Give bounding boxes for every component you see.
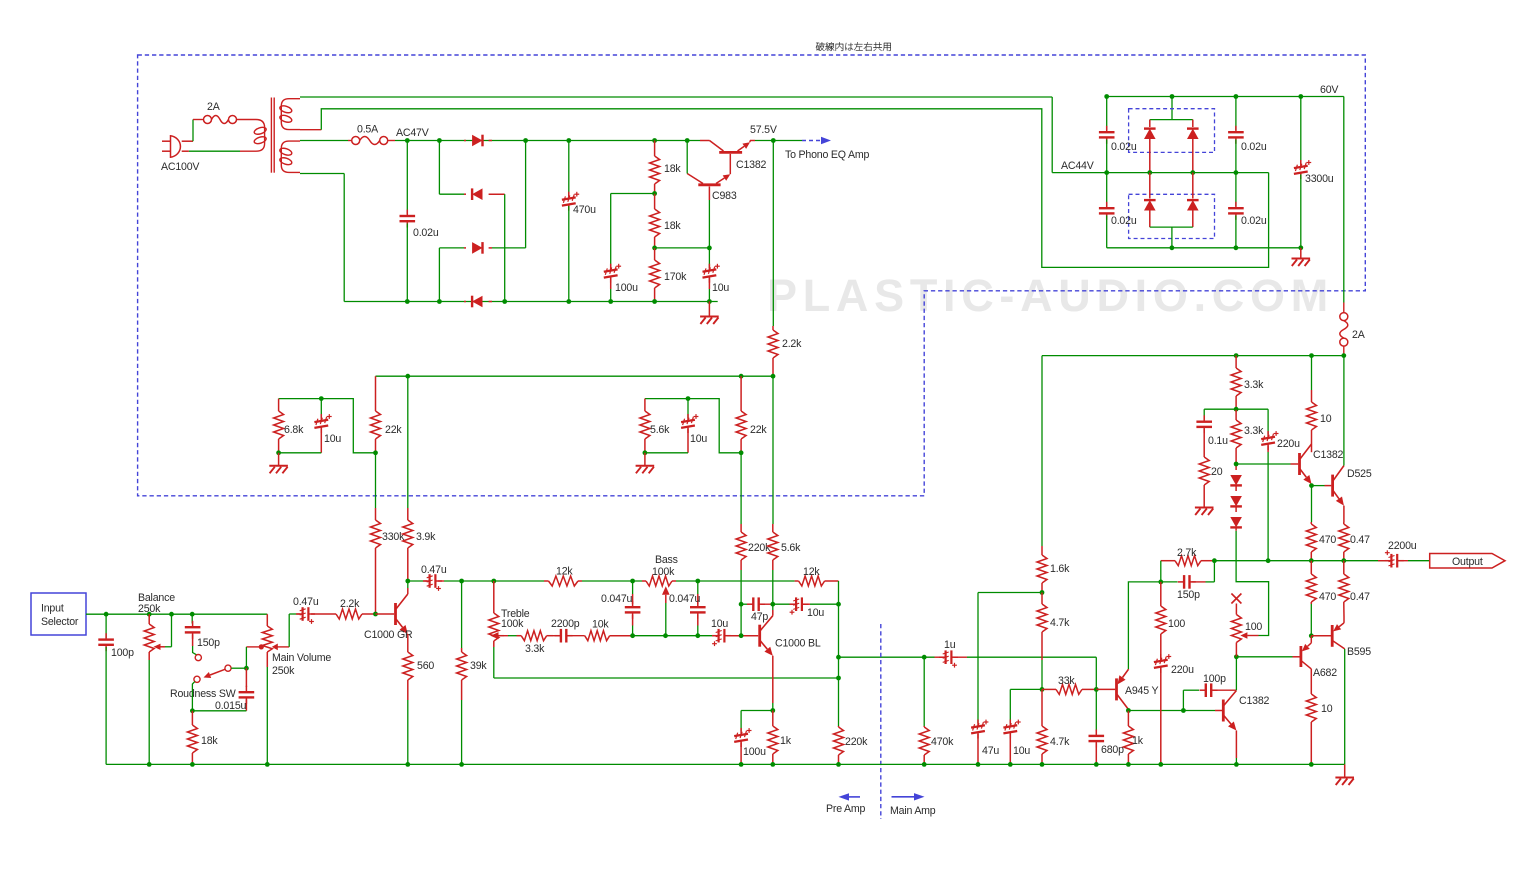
svg-text:Bass: Bass bbox=[655, 554, 678, 566]
wire tone rail bbox=[444, 580, 544, 582]
svg-text:470k: 470k bbox=[931, 736, 954, 748]
wire C983 base row bbox=[655, 247, 710, 249]
svg-text:6.8k: 6.8k bbox=[284, 424, 304, 436]
capacitor 10u cell1 bbox=[319, 396, 324, 401]
driver emitter to gnd bbox=[1235, 731, 1237, 759]
svg-text:2.7k: 2.7k bbox=[1177, 547, 1197, 559]
svg-text:A945 Y: A945 Y bbox=[1125, 685, 1158, 697]
capacitor 0.047u right bbox=[697, 581, 699, 594]
capacitor 100u bbox=[604, 269, 618, 271]
D525 collector to rail bbox=[1343, 356, 1345, 466]
resistor 12k tone-right bbox=[799, 576, 825, 586]
wire driver base line bbox=[1128, 710, 1215, 712]
transistor A682 bbox=[1300, 646, 1303, 667]
treble wiper bbox=[499, 635, 505, 637]
svg-text:18k: 18k bbox=[664, 220, 681, 232]
svg-text:B595: B595 bbox=[1347, 646, 1371, 658]
svg-text:2A: 2A bbox=[1352, 329, 1366, 341]
svg-text:Input: Input bbox=[41, 603, 64, 615]
svg-text:4.7k: 4.7k bbox=[1050, 617, 1070, 629]
resistor 22k left bbox=[375, 376, 377, 411]
wire rect row3 bbox=[438, 248, 440, 302]
wire 60V rail bbox=[1107, 96, 1344, 98]
resistor 4.7k lower bbox=[1041, 689, 1043, 726]
capacitor 2200u output bbox=[1378, 560, 1391, 562]
diode chain D5 D6 D7 bbox=[1235, 464, 1237, 470]
B595 collector to ground rail bbox=[1344, 649, 1346, 765]
wire rect row2 left leg bbox=[438, 141, 440, 195]
svg-text:0.47u: 0.47u bbox=[293, 596, 319, 608]
node rectifier top-left bbox=[437, 138, 442, 143]
node AC47V bbox=[405, 138, 410, 143]
wire fb column bbox=[838, 581, 840, 657]
svg-text:39k: 39k bbox=[470, 660, 487, 672]
svg-text:250k: 250k bbox=[138, 603, 161, 615]
balance wiper bbox=[161, 646, 166, 648]
bass wiper bbox=[665, 595, 667, 600]
svg-text:250k: 250k bbox=[272, 665, 295, 677]
wire rect row2 right leg down bbox=[504, 194, 506, 301]
svg-text:D525: D525 bbox=[1347, 468, 1372, 480]
switch contact A bbox=[195, 655, 201, 661]
diode D3 bbox=[464, 247, 466, 249]
label hasen-nai bbox=[816, 42, 825, 51]
wire emitter bypass branch bbox=[741, 710, 773, 712]
capacitor 3300u bbox=[1298, 94, 1303, 99]
diode D1 on AC47V rail bbox=[464, 140, 466, 142]
D525 emitter / resistor 0.47 upper bbox=[1343, 506, 1345, 522]
svg-text:0.02u: 0.02u bbox=[1111, 215, 1137, 227]
node 22k left bottom bbox=[373, 450, 378, 455]
wire 57.5V node bbox=[755, 140, 802, 142]
svg-text:150p: 150p bbox=[1177, 589, 1200, 601]
transistor A945 Y bbox=[1115, 678, 1118, 700]
resistor 2.2k base bbox=[332, 613, 336, 615]
capacitor 10u tone out bbox=[714, 635, 716, 637]
A945 collector bbox=[1127, 709, 1129, 710]
A945 emitter wire bbox=[1127, 668, 1129, 670]
wire bridge bottom tap bbox=[1150, 226, 1193, 228]
svg-text:AC47V: AC47V bbox=[396, 127, 430, 139]
arrow pre amp bbox=[848, 796, 860, 798]
resistor 3.3k treble bbox=[517, 635, 522, 637]
svg-text:560: 560 bbox=[417, 660, 434, 672]
switch Roudness SW lever bbox=[225, 665, 231, 671]
node trimmer bottom bbox=[1234, 654, 1239, 659]
svg-text:0.47: 0.47 bbox=[1350, 534, 1370, 546]
svg-text:Main Amp: Main Amp bbox=[890, 805, 936, 817]
svg-text:100: 100 bbox=[1245, 621, 1262, 633]
wire PS bottom rail bbox=[344, 301, 718, 303]
capacitor 0.47u coupling bbox=[298, 613, 301, 615]
transistor B595 bbox=[1331, 625, 1334, 647]
svg-text:2A: 2A bbox=[207, 101, 221, 113]
wire C983 collector to rail bbox=[686, 141, 688, 174]
svg-text:Pre Amp: Pre Amp bbox=[826, 803, 866, 815]
bridge diode DB1 bbox=[1149, 120, 1151, 127]
wire treble bottom feedback bbox=[494, 677, 839, 679]
wire output rail bbox=[1161, 560, 1175, 562]
capacitor 0.1u bbox=[1203, 409, 1205, 419]
wire preamp supply rail bbox=[376, 375, 774, 377]
C1000BL emitter bbox=[772, 656, 774, 703]
capacitor 100u bypass bbox=[734, 734, 748, 736]
capacitor 100p branch bbox=[1182, 690, 1184, 710]
node B595 base bbox=[1309, 633, 1314, 638]
transformer T1 primary winding bbox=[264, 128, 266, 144]
wire switch B to loudness node bbox=[231, 667, 246, 669]
C1000GR emitter / resistor 560 bbox=[407, 634, 409, 648]
transformer T1 secondary winding upper bbox=[281, 99, 300, 130]
svg-text:100u: 100u bbox=[743, 746, 766, 758]
resistor 220k fb supply bbox=[740, 453, 742, 524]
capacitor 10u nfb bbox=[773, 603, 790, 605]
svg-text:10k: 10k bbox=[592, 619, 609, 631]
svg-text:22k: 22k bbox=[385, 424, 402, 436]
svg-text:3.3k: 3.3k bbox=[525, 643, 545, 655]
divider: Pre Amp / Main Amp bbox=[880, 624, 882, 819]
node bridge top bbox=[1170, 94, 1175, 99]
svg-text:1u: 1u bbox=[944, 639, 956, 651]
svg-text:220u: 220u bbox=[1277, 438, 1300, 450]
fuse F2 0.5A bbox=[348, 140, 352, 142]
transformer T1 secondary winding lower bbox=[281, 141, 300, 172]
fuse F1 2A bbox=[204, 116, 212, 124]
svg-text:12k: 12k bbox=[556, 566, 573, 578]
svg-text:Roudness SW: Roudness SW bbox=[170, 688, 236, 700]
transistor C1382 driver bbox=[1222, 700, 1225, 722]
resistor 1k A945 bbox=[1127, 711, 1129, 727]
resistor 100 A945 emitter bbox=[1160, 582, 1162, 606]
wire winding2 top AC47V bbox=[300, 140, 348, 142]
main volume wiper bbox=[277, 646, 279, 648]
svg-text:470: 470 bbox=[1319, 534, 1336, 546]
capacitor 0.02u bridge LL bbox=[1106, 173, 1108, 206]
svg-text:220k: 220k bbox=[845, 736, 868, 748]
svg-text:33k: 33k bbox=[1058, 675, 1075, 687]
capacitor 0.02u bridge UR bbox=[1235, 97, 1237, 131]
svg-text:10u: 10u bbox=[324, 433, 341, 445]
node 220k / 47p bbox=[739, 602, 744, 607]
capacitor 100p bbox=[105, 614, 107, 638]
svg-text:150p: 150p bbox=[197, 637, 220, 649]
resistor 2.7k bbox=[1175, 556, 1201, 566]
svg-text:680p: 680p bbox=[1101, 744, 1124, 756]
svg-text:C1382: C1382 bbox=[736, 159, 767, 171]
resistor 4.7k upper bbox=[1041, 593, 1043, 605]
resistor 6.8k bbox=[278, 399, 280, 411]
wire ground rail bbox=[106, 763, 1345, 765]
wire bridge top tap bbox=[1171, 97, 1173, 120]
wire C983 base lead bbox=[708, 200, 710, 248]
resistor 18k upper bbox=[652, 138, 657, 143]
resistor 0.47 lower bbox=[1343, 561, 1345, 574]
fuse F3 2A bbox=[1343, 303, 1345, 314]
ground PS bbox=[708, 302, 710, 317]
bridge diode DB2 bbox=[1192, 120, 1194, 127]
capacitor 2200p bbox=[555, 635, 561, 637]
wire divider to 47u bbox=[978, 592, 1042, 594]
wire to coupling cap bbox=[289, 613, 297, 615]
svg-text:10u: 10u bbox=[712, 282, 729, 294]
diode D2 bbox=[464, 193, 466, 195]
capacitor 220u bootstrap bbox=[1267, 409, 1269, 434]
svg-text:3.3k: 3.3k bbox=[1244, 425, 1264, 437]
wire winding2 bottom tap bbox=[300, 173, 344, 175]
svg-text:0.5A: 0.5A bbox=[357, 124, 379, 136]
svg-text:22k: 22k bbox=[750, 424, 767, 436]
resistor 10k bbox=[584, 635, 586, 637]
transistor C1382 series pass bbox=[719, 151, 742, 154]
svg-text:0.1u: 0.1u bbox=[1208, 435, 1228, 447]
resistor 330k bbox=[375, 453, 377, 508]
AC plug P1 bbox=[171, 136, 181, 157]
resistor 1.6k bbox=[1041, 356, 1043, 546]
driver collector bbox=[1235, 657, 1237, 690]
diode D4 on bottom rail bbox=[464, 301, 466, 303]
wire D525 base bbox=[1312, 485, 1325, 487]
svg-text:3300u: 3300u bbox=[1305, 173, 1334, 185]
wire A945 base lead bbox=[1096, 688, 1115, 690]
node bias bbox=[1040, 687, 1045, 692]
svg-text:5.6k: 5.6k bbox=[650, 424, 670, 436]
svg-text:0.047u: 0.047u bbox=[669, 593, 701, 605]
transistor C1000 GR bbox=[394, 603, 397, 625]
transistor C983 bbox=[698, 183, 720, 186]
trimmer wiper bbox=[1247, 635, 1248, 637]
svg-text:3.3k: 3.3k bbox=[1244, 379, 1264, 391]
node predriver base bbox=[1234, 462, 1239, 467]
svg-text:To Phono EQ Amp: To Phono EQ Amp bbox=[785, 149, 869, 161]
svg-text:100p: 100p bbox=[1203, 673, 1226, 685]
svg-text:18k: 18k bbox=[201, 735, 218, 747]
resistor 220k feedback bbox=[838, 726, 840, 727]
wire A682 emitter to node bbox=[1310, 636, 1312, 643]
svg-text:A682: A682 bbox=[1313, 667, 1337, 679]
svg-text:100k: 100k bbox=[501, 618, 524, 630]
wire 60V down to fuse bbox=[1343, 97, 1345, 303]
wire driver base lead bbox=[1215, 710, 1222, 712]
resistor 22k right bbox=[740, 376, 742, 411]
svg-text:5.6k: 5.6k bbox=[781, 542, 801, 554]
svg-text:100u: 100u bbox=[615, 282, 638, 294]
bridge diode DB4 bbox=[1192, 173, 1194, 199]
resistor 3.3k lower bbox=[1235, 409, 1237, 420]
resistor 5.6k load bbox=[772, 376, 774, 524]
resistor 20 bbox=[1203, 452, 1205, 457]
svg-text:2.2k: 2.2k bbox=[782, 338, 802, 350]
output connector bbox=[1430, 554, 1505, 569]
svg-text:10u: 10u bbox=[690, 433, 707, 445]
wire loudness tap bbox=[259, 644, 264, 649]
svg-text:3.9k: 3.9k bbox=[416, 531, 436, 543]
svg-text:2200u: 2200u bbox=[1388, 540, 1417, 552]
dashed shared-supply boundary bbox=[138, 55, 1366, 496]
wire 1u to base node bbox=[1095, 657, 1097, 689]
svg-text:PLASTIC-AUDIO.COM: PLASTIC-AUDIO.COM bbox=[767, 270, 1334, 321]
svg-text:47p: 47p bbox=[751, 611, 768, 623]
ground zobel bbox=[1195, 507, 1214, 509]
resistor 2.2k dropper bbox=[772, 141, 774, 327]
capacitor 10u regulator bbox=[708, 248, 710, 268]
svg-text:100k: 100k bbox=[652, 566, 675, 578]
node 18k junction bbox=[652, 191, 657, 196]
svg-text:1.6k: 1.6k bbox=[1050, 563, 1070, 575]
wire 0.1u / 220u link bbox=[1204, 408, 1268, 410]
svg-text:C1000 GR: C1000 GR bbox=[364, 629, 413, 641]
resistor 470 lower bbox=[1310, 561, 1312, 574]
svg-text:0.47u: 0.47u bbox=[421, 564, 447, 576]
capacitor 0.47u stage2 bbox=[408, 580, 425, 582]
node 3.9k collector bbox=[405, 579, 410, 584]
svg-text:170k: 170k bbox=[664, 271, 687, 283]
wire tone output line bbox=[633, 635, 714, 637]
wire predriver base bbox=[1236, 463, 1290, 465]
svg-text:57.5V: 57.5V bbox=[750, 124, 778, 136]
ground cell2 bbox=[644, 453, 646, 466]
resistor 3.9k bbox=[407, 376, 409, 508]
svg-text:Selector: Selector bbox=[41, 616, 79, 628]
wire 2.7k left column bbox=[1160, 561, 1162, 582]
resistor 18k loudness bbox=[191, 711, 193, 725]
svg-text:4.7k: 4.7k bbox=[1050, 736, 1070, 748]
svg-text:60V: 60V bbox=[1320, 84, 1339, 96]
capacitor 470u bbox=[566, 138, 571, 143]
svg-text:470u: 470u bbox=[573, 204, 596, 216]
capacitor 1u coupling bbox=[935, 656, 944, 658]
wire base lead C1000GR bbox=[376, 613, 395, 615]
wire B595 base lead bbox=[1311, 635, 1331, 637]
wire plug to fuse bbox=[182, 140, 193, 142]
trimmer 100 body bbox=[1235, 609, 1237, 615]
resistor 12k tone-left bbox=[549, 576, 579, 586]
svg-text:Output: Output bbox=[1452, 556, 1483, 568]
wire cell2 loop bbox=[645, 399, 741, 453]
svg-text:0.02u: 0.02u bbox=[1241, 141, 1267, 153]
capacitor 150p bbox=[191, 614, 193, 623]
ground main bbox=[1344, 764, 1346, 777]
svg-text:470: 470 bbox=[1319, 591, 1336, 603]
switch contact C bbox=[194, 676, 200, 682]
svg-text:C1382: C1382 bbox=[1313, 449, 1344, 461]
wire mainamp V+ rail bbox=[1042, 355, 1344, 357]
C1000GR collector bbox=[407, 588, 409, 594]
wire cell2 bottom bbox=[645, 452, 688, 454]
svg-text:0.047u: 0.047u bbox=[601, 593, 633, 605]
wire PS neg rail bbox=[1107, 247, 1301, 249]
svg-text:100p: 100p bbox=[111, 647, 134, 659]
svg-text:12k: 12k bbox=[803, 566, 820, 578]
resistor 1k emitter bbox=[772, 711, 774, 727]
svg-text:AC100V: AC100V bbox=[161, 161, 200, 173]
capacitor 0.02u bridge UL bbox=[1106, 97, 1108, 131]
wire plug bottom to primary bbox=[182, 150, 189, 152]
svg-text:10u: 10u bbox=[807, 607, 824, 619]
input selector box bbox=[31, 593, 86, 635]
svg-text:Main Volume: Main Volume bbox=[272, 652, 331, 664]
capacitor 0.047u left bbox=[632, 581, 634, 594]
wire 100u branch bbox=[611, 193, 655, 195]
wire AC47V rail bbox=[395, 140, 700, 142]
resistor 10 A682 bbox=[1310, 669, 1312, 692]
svg-text:220k: 220k bbox=[748, 542, 771, 554]
capacitor 0.02u input filter bbox=[406, 141, 408, 215]
transistor D525 bbox=[1331, 475, 1334, 497]
svg-text:2200p: 2200p bbox=[551, 618, 580, 630]
svg-text:10: 10 bbox=[1320, 413, 1332, 425]
capacitor 10u cell2 bbox=[686, 396, 691, 401]
wire cell1 loop bbox=[279, 399, 376, 453]
node 3.3k junction bbox=[1234, 407, 1239, 412]
capacitor 150p lag bbox=[1161, 581, 1178, 583]
arrow main amp bbox=[892, 796, 915, 798]
resistor 33k bbox=[1042, 688, 1056, 690]
transistor C1000 BL bbox=[758, 625, 761, 647]
svg-text:C1000 BL: C1000 BL bbox=[775, 638, 821, 650]
svg-text:100: 100 bbox=[1168, 618, 1185, 630]
wire AC44V rail bbox=[1052, 172, 1268, 174]
svg-text:AC44V: AC44V bbox=[1061, 160, 1095, 172]
wire loudness bottom bbox=[192, 710, 246, 712]
bridge diode DB3 bbox=[1149, 173, 1151, 199]
wire A682 base bbox=[1236, 656, 1292, 658]
predriver emitter node bbox=[1311, 484, 1313, 486]
resistor 5.6k cell2 bbox=[644, 399, 646, 411]
wire switch C down bbox=[192, 682, 194, 711]
resistor 10 predriver bbox=[1311, 356, 1313, 390]
capacitor 47p bbox=[741, 603, 748, 605]
svg-text:18k: 18k bbox=[664, 163, 681, 175]
dashed box upper bridge bbox=[1129, 109, 1215, 153]
wire cell1 bottom bbox=[279, 452, 322, 454]
resistor 170k bbox=[654, 248, 656, 260]
svg-text:47u: 47u bbox=[982, 745, 999, 757]
svg-text:0.02u: 0.02u bbox=[1241, 215, 1267, 227]
capacitor 220u A945 bbox=[1154, 660, 1168, 662]
svg-text:2.2k: 2.2k bbox=[340, 598, 360, 610]
transformer T1 core bbox=[270, 98, 272, 173]
wire input line bbox=[86, 613, 267, 615]
ground bridge bbox=[1300, 248, 1302, 259]
capacitor 0.015u bbox=[245, 668, 247, 687]
wire preamp output line bbox=[839, 656, 935, 658]
svg-text:C983: C983 bbox=[712, 190, 737, 202]
capacitor 0.02u bridge LR bbox=[1235, 173, 1237, 206]
ground cell1 bbox=[278, 453, 280, 466]
C1000BL collector bbox=[772, 610, 774, 616]
capacitor 10u bias bbox=[1003, 725, 1017, 727]
svg-text:10u: 10u bbox=[711, 618, 728, 630]
svg-text:0.47: 0.47 bbox=[1350, 591, 1370, 603]
resistor 18k lower bbox=[654, 194, 656, 210]
wire bias to 10u bbox=[1010, 688, 1042, 690]
dashed box lower bridge bbox=[1129, 194, 1215, 238]
svg-text:10u: 10u bbox=[1013, 745, 1030, 757]
wire fuse to transformer primary bbox=[236, 120, 265, 128]
resistor 470 upper bbox=[1311, 486, 1313, 522]
svg-text:1k: 1k bbox=[780, 735, 792, 747]
svg-text:0.02u: 0.02u bbox=[1111, 141, 1137, 153]
trimmer cross mark bbox=[1231, 594, 1241, 604]
arrow to phono eq amp bbox=[802, 140, 822, 142]
wire rect row3 to rail bbox=[492, 247, 526, 249]
svg-text:220u: 220u bbox=[1171, 664, 1194, 676]
wire winding1 top to AC44V drop bbox=[300, 96, 1052, 98]
svg-text:20: 20 bbox=[1211, 466, 1223, 478]
node 170k junction bbox=[652, 246, 657, 251]
capacitor 680p bbox=[1095, 689, 1097, 731]
resistor 3.3k upper bbox=[1235, 356, 1237, 368]
